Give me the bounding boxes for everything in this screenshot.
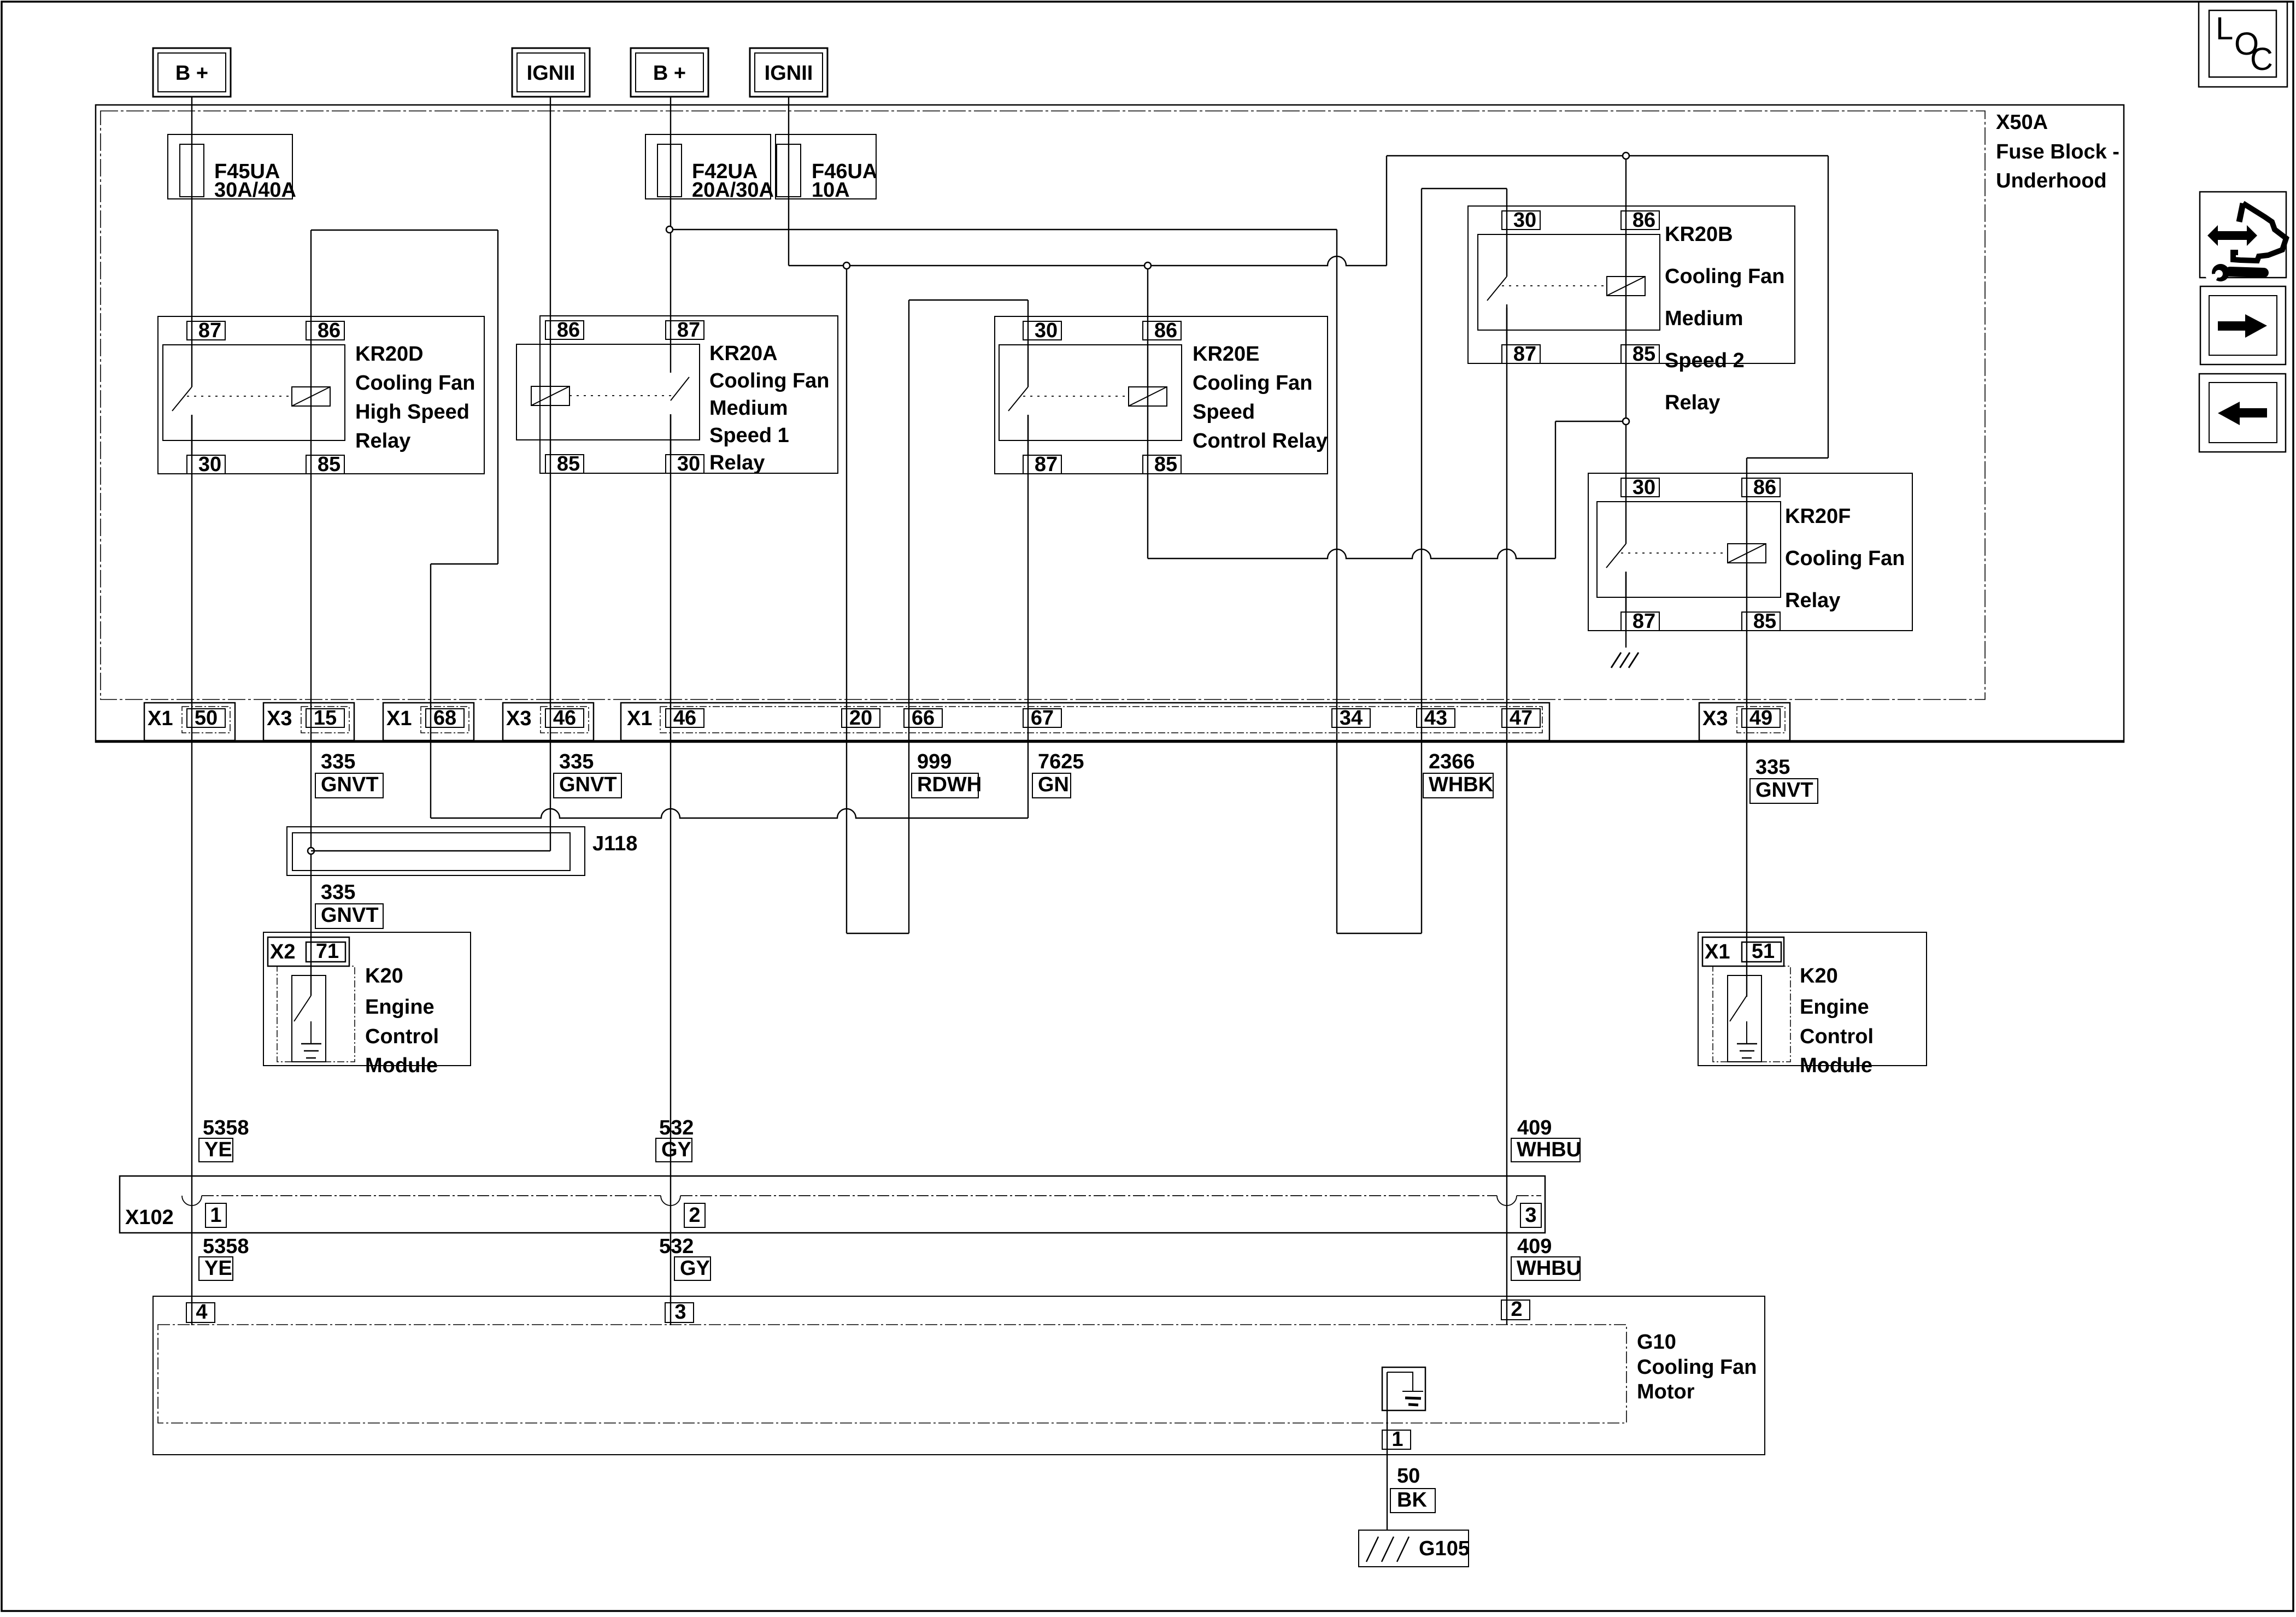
- svg-text:85: 85: [1633, 343, 1655, 366]
- svg-text:532: 532: [659, 1116, 694, 1139]
- svg-text:66: 66: [912, 707, 935, 730]
- svg-text:WHBU: WHBU: [1517, 1257, 1581, 1280]
- svg-text:KR20E: KR20E: [1193, 343, 1260, 366]
- svg-text:51: 51: [1752, 940, 1775, 963]
- svg-text:Relay: Relay: [1785, 589, 1840, 612]
- svg-text:GNVT: GNVT: [1755, 779, 1813, 802]
- svg-text:2: 2: [1511, 1298, 1522, 1321]
- svg-text:J118: J118: [592, 832, 637, 855]
- svg-text:K20: K20: [1800, 965, 1838, 987]
- svg-text:L: L: [2216, 11, 2233, 46]
- svg-text:X50A: X50A: [1996, 111, 2048, 134]
- svg-text:Engine: Engine: [1800, 996, 1869, 1019]
- svg-text:50: 50: [1397, 1465, 1420, 1487]
- svg-text:High Speed: High Speed: [355, 401, 469, 424]
- svg-text:IGNII: IGNII: [527, 62, 576, 85]
- svg-text:GY: GY: [680, 1257, 710, 1280]
- svg-text:Cooling Fan: Cooling Fan: [1665, 265, 1785, 288]
- svg-text:X1: X1: [1705, 940, 1730, 963]
- svg-text:X2: X2: [270, 940, 295, 963]
- svg-text:409: 409: [1517, 1116, 1552, 1139]
- svg-text:Motor: Motor: [1637, 1380, 1695, 1403]
- svg-text:1: 1: [1391, 1428, 1403, 1451]
- svg-text:86: 86: [318, 319, 340, 342]
- svg-text:46: 46: [553, 707, 576, 730]
- svg-text:335: 335: [559, 750, 594, 773]
- svg-text:Fuse Block -: Fuse Block -: [1996, 140, 2119, 163]
- svg-text:10A: 10A: [812, 179, 850, 202]
- svg-text:YE: YE: [204, 1138, 232, 1161]
- svg-text:GNVT: GNVT: [321, 904, 379, 927]
- svg-text:5358: 5358: [203, 1116, 249, 1139]
- svg-text:Speed 2: Speed 2: [1665, 349, 1745, 372]
- svg-text:5358: 5358: [203, 1235, 249, 1258]
- svg-text:X3: X3: [1702, 707, 1728, 730]
- svg-text:Cooling Fan: Cooling Fan: [1193, 372, 1313, 395]
- svg-text:X3: X3: [267, 707, 292, 730]
- svg-text:7625: 7625: [1038, 750, 1084, 773]
- svg-text:Underhood: Underhood: [1996, 169, 2107, 192]
- svg-text:43: 43: [1424, 707, 1447, 730]
- svg-text:Medium: Medium: [1665, 307, 1743, 330]
- svg-text:KR20B: KR20B: [1665, 223, 1733, 246]
- svg-text:G105: G105: [1419, 1537, 1470, 1560]
- svg-text:50: 50: [195, 707, 218, 730]
- svg-text:Relay: Relay: [709, 451, 765, 474]
- svg-text:Relay: Relay: [355, 430, 410, 452]
- svg-text:20: 20: [849, 707, 872, 730]
- svg-text:Speed: Speed: [1193, 401, 1255, 424]
- svg-text:86: 86: [1753, 476, 1776, 499]
- svg-text:BK: BK: [1397, 1489, 1427, 1512]
- svg-text:335: 335: [321, 750, 355, 773]
- svg-text:Cooling Fan: Cooling Fan: [355, 372, 475, 395]
- svg-text:4: 4: [196, 1301, 207, 1324]
- svg-text:47: 47: [1510, 707, 1532, 730]
- svg-text:532: 532: [659, 1235, 694, 1258]
- svg-text:85: 85: [557, 452, 580, 475]
- svg-text:30: 30: [1035, 319, 1058, 342]
- svg-text:C: C: [2250, 42, 2273, 77]
- svg-text:GY: GY: [661, 1138, 691, 1161]
- svg-text:68: 68: [433, 707, 456, 730]
- svg-text:15: 15: [314, 707, 337, 730]
- svg-text:WHBU: WHBU: [1517, 1138, 1581, 1161]
- svg-text:1: 1: [210, 1204, 221, 1227]
- svg-text:87: 87: [1633, 610, 1655, 633]
- svg-text:85: 85: [318, 453, 340, 476]
- svg-text:3: 3: [674, 1301, 686, 1324]
- svg-text:85: 85: [1154, 453, 1177, 476]
- svg-text:335: 335: [321, 881, 355, 904]
- svg-text:G10: G10: [1637, 1331, 1676, 1354]
- svg-text:Control: Control: [365, 1025, 439, 1048]
- svg-text:335: 335: [1755, 756, 1790, 779]
- svg-text:Cooling Fan: Cooling Fan: [709, 369, 830, 392]
- svg-text:Cooling Fan: Cooling Fan: [1637, 1356, 1757, 1379]
- svg-text:85: 85: [1753, 610, 1776, 633]
- svg-text:RDWH: RDWH: [917, 773, 982, 796]
- svg-text:20A/30A: 20A/30A: [692, 179, 774, 202]
- svg-text:30A/40A: 30A/40A: [214, 179, 296, 202]
- svg-text:IGNII: IGNII: [765, 62, 813, 85]
- svg-text:B +: B +: [653, 62, 686, 85]
- svg-text:86: 86: [557, 319, 580, 342]
- svg-text:X102: X102: [125, 1206, 174, 1229]
- svg-text:409: 409: [1517, 1235, 1552, 1258]
- svg-text:87: 87: [677, 319, 700, 342]
- svg-text:34: 34: [1340, 707, 1363, 730]
- svg-text:GNVT: GNVT: [559, 773, 617, 796]
- svg-text:Control: Control: [1800, 1025, 1874, 1048]
- svg-text:X1: X1: [386, 707, 412, 730]
- svg-text:GN: GN: [1038, 773, 1069, 796]
- svg-text:46: 46: [673, 707, 696, 730]
- svg-text:Engine: Engine: [365, 996, 434, 1019]
- svg-text:71: 71: [316, 940, 339, 963]
- svg-text:Speed 1: Speed 1: [709, 424, 789, 447]
- svg-text:B +: B +: [175, 62, 208, 85]
- svg-text:87: 87: [1513, 343, 1536, 366]
- svg-text:KR20A: KR20A: [709, 342, 778, 365]
- svg-text:Medium: Medium: [709, 397, 788, 420]
- svg-text:67: 67: [1031, 707, 1054, 730]
- svg-text:49: 49: [1749, 707, 1772, 730]
- svg-text:30: 30: [677, 452, 700, 475]
- svg-text:WHBK: WHBK: [1429, 773, 1494, 796]
- svg-text:87: 87: [1035, 453, 1058, 476]
- svg-text:K20: K20: [365, 965, 403, 987]
- svg-text:2: 2: [689, 1204, 700, 1227]
- svg-text:X3: X3: [506, 707, 531, 730]
- svg-text:999: 999: [917, 750, 952, 773]
- svg-text:Module: Module: [1800, 1054, 1872, 1077]
- svg-text:86: 86: [1154, 319, 1177, 342]
- svg-text:30: 30: [1633, 476, 1655, 499]
- svg-text:GNVT: GNVT: [321, 773, 379, 796]
- svg-text:30: 30: [1513, 209, 1536, 232]
- svg-text:Control Relay: Control Relay: [1193, 430, 1328, 452]
- svg-text:30: 30: [198, 453, 221, 476]
- svg-text:87: 87: [198, 319, 221, 342]
- svg-text:Relay: Relay: [1665, 391, 1720, 414]
- svg-text:86: 86: [1633, 209, 1655, 232]
- svg-text:2366: 2366: [1429, 750, 1475, 773]
- svg-text:KR20D: KR20D: [355, 343, 424, 366]
- svg-text:Module: Module: [365, 1054, 438, 1077]
- svg-text:X1: X1: [627, 707, 652, 730]
- svg-text:YE: YE: [204, 1257, 232, 1280]
- svg-text:Cooling Fan: Cooling Fan: [1785, 547, 1905, 570]
- svg-text:KR20F: KR20F: [1785, 505, 1851, 528]
- svg-text:3: 3: [1525, 1204, 1536, 1227]
- svg-text:X1: X1: [148, 707, 173, 730]
